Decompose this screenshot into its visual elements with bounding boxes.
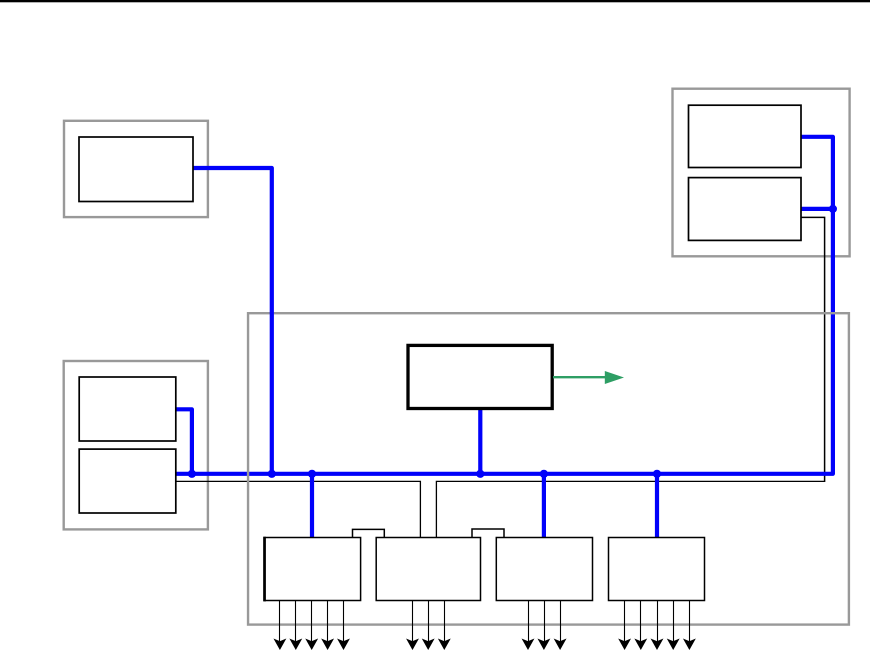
wire: blue main bus with riser to top-right upper block	[175, 137, 833, 474]
wire: blue from top-left block down to bus (drawn over bottom frame)	[192, 168, 272, 474]
output arrows below bottom block 4	[619, 601, 694, 649]
output arrows below bottom block 1	[275, 601, 349, 649]
tab bridge between bottom blocks 2 and 3	[472, 529, 504, 538]
wire: blue stub from top-right lower block to riser	[800, 207, 833, 211]
green output arrow from center block	[553, 376, 606, 378]
wire: thin black riser up to top-right lower block	[800, 217, 825, 482]
junction dot at bottom block 3 stub	[540, 470, 548, 478]
tab bridge between bottom blocks 1 and 2	[353, 529, 385, 538]
block: bottom 4	[609, 538, 705, 601]
group frame: middle-left	[64, 361, 208, 529]
group frame: top-right	[673, 89, 850, 257]
block: top-right upper	[689, 105, 802, 167]
wire: thin black bus chimney right side, run right and up to top-right lower block	[436, 481, 825, 537]
junction dot at center block stub	[476, 470, 484, 478]
wire: blue stub bus to bottom block 3	[542, 474, 546, 538]
output arrows below bottom block 3	[523, 601, 566, 649]
block: middle-left lower	[79, 449, 176, 513]
wire: thin black bus from middle-left lower block to chimney of block 2	[175, 481, 420, 537]
group frame: bottom section (drawn over the bus)	[248, 313, 849, 624]
block: bottom 1	[264, 538, 361, 601]
junction dot at middle-left riser	[188, 470, 196, 478]
block: top-right lower	[689, 178, 802, 241]
block: center (thick border)	[408, 345, 552, 408]
junction dot at bottom block 4 stub	[653, 470, 661, 478]
wire: blue from middle-left upper block down to bus	[175, 409, 192, 474]
block: top-left	[79, 137, 193, 202]
junction dot at top-left riser	[268, 470, 276, 478]
wire: blue stub center block to bus	[478, 408, 482, 474]
block: bottom 2	[376, 538, 480, 601]
block: bottom 1 thick left edge	[263, 537, 266, 602]
block: bottom 3	[496, 538, 592, 601]
top border bar	[0, 0, 870, 2]
block: middle-left upper	[79, 377, 176, 441]
wire: blue stub bus to bottom block 4	[655, 474, 659, 538]
junction dot at bottom block 1 stub	[308, 470, 316, 478]
output arrows below bottom block 2	[407, 601, 449, 649]
group frame: top-left	[64, 121, 208, 217]
junction dot at top-right lower block stub	[829, 205, 837, 213]
wire: blue stub bus to bottom block 1	[310, 474, 314, 538]
